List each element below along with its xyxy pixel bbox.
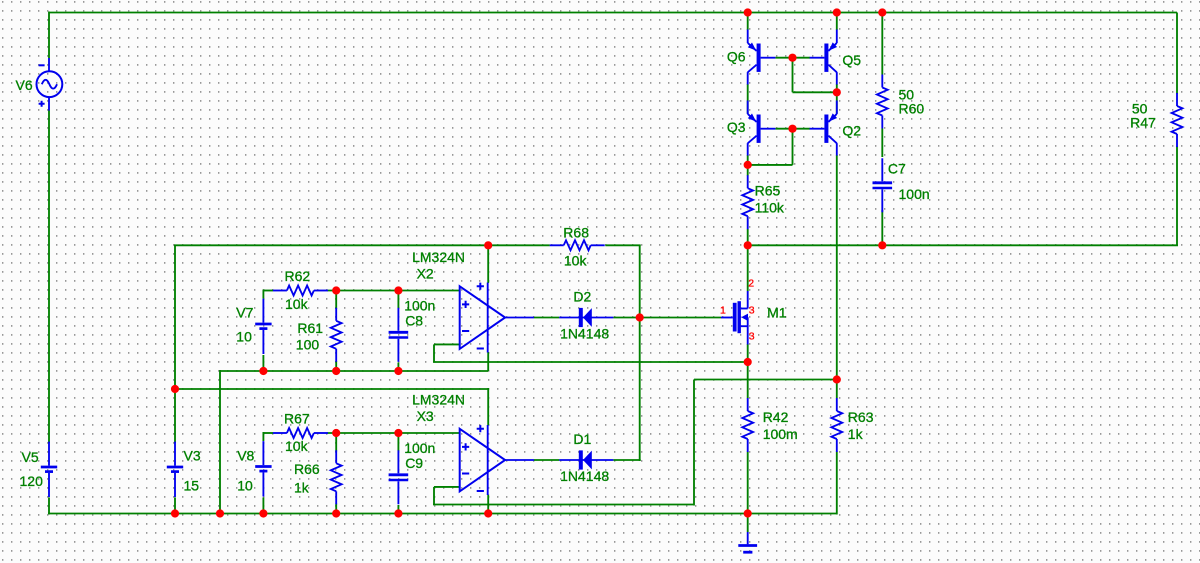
- svg-text:15: 15: [184, 477, 200, 493]
- wire X3 supply row: [175, 388, 488, 390]
- transistor Q6: [748, 30, 776, 85]
- junction M1 source / R42 / feedback: [744, 358, 752, 366]
- svg-text:1: 1: [720, 305, 726, 317]
- svg-text:Q5: Q5: [842, 52, 861, 68]
- wire Q5-Q2: [836, 84, 838, 114]
- diode D1: [559, 450, 613, 469]
- svg-text:10k: 10k: [564, 253, 588, 269]
- svg-text:R67: R67: [284, 410, 310, 426]
- wire X3 fb up: [693, 380, 695, 506]
- svg-text:2: 2: [748, 278, 754, 290]
- junction Q6-Q5 bases: [788, 54, 796, 62]
- resistor R67: [273, 428, 328, 438]
- wire Q6 base to Q5 base: [775, 57, 810, 59]
- wire R66 top stub: [335, 433, 337, 452]
- wire X2 fb down: [433, 344, 435, 362]
- resistor R42: [742, 398, 753, 452]
- resistor R68: [550, 240, 605, 250]
- wire X2 V- pin: [487, 352, 489, 371]
- wire base tie to Q3 collector: [748, 164, 793, 166]
- junction drain node: [744, 241, 752, 249]
- transistor Q2: [810, 101, 838, 156]
- wire X2 input row b: [327, 290, 459, 292]
- wire R60 top: [881, 13, 883, 75]
- svg-text:100n: 100n: [404, 297, 435, 313]
- svg-text:10k: 10k: [285, 296, 309, 312]
- svg-text:C7: C7: [888, 160, 906, 176]
- svg-text:100n: 100n: [899, 186, 930, 202]
- wire gate net upper: [639, 245, 641, 317]
- wire X3 out to D1: [534, 459, 559, 461]
- svg-text:LM324N: LM324N: [412, 391, 465, 407]
- svg-text:R47: R47: [1130, 115, 1156, 131]
- svg-text:X2: X2: [417, 266, 434, 282]
- junction C7 / drain rail: [878, 241, 886, 249]
- junction C9 top node: [394, 429, 402, 437]
- junction Q3 base-collector tie: [744, 161, 752, 169]
- wire drain rail right: [882, 244, 1178, 246]
- wire X2 inv stub: [434, 343, 459, 345]
- junction Q5 base-collector tie: [833, 88, 841, 96]
- svg-text:R65: R65: [755, 183, 781, 199]
- resistor R61: [331, 308, 342, 362]
- wire base tie to Q5 collector: [793, 91, 837, 93]
- junction X3 power / ground rail: [484, 509, 492, 517]
- svg-text:100: 100: [296, 337, 320, 353]
- wire R42 to ground rail: [747, 452, 749, 514]
- junction C9 / ground rail: [394, 509, 402, 517]
- wire R63 bottom: [836, 452, 838, 515]
- svg-text:1k: 1k: [848, 426, 864, 442]
- transistor Q3: [748, 101, 776, 156]
- op-amp X3: [460, 425, 534, 495]
- wire C8 top lead: [397, 291, 399, 309]
- svg-text:V5: V5: [22, 449, 39, 465]
- wire X3 input row a: [263, 432, 273, 434]
- junction ref drop / ground rail: [216, 509, 224, 517]
- wire R60 to C7: [881, 129, 883, 158]
- svg-text:R61: R61: [297, 320, 323, 336]
- wire gate net lower: [639, 318, 641, 462]
- wire R63 top lead: [836, 380, 838, 399]
- wire X3 V+ pin: [487, 388, 489, 426]
- wire upper gnd rail: [220, 370, 488, 372]
- junction V8 / ground rail: [259, 509, 267, 517]
- voltage source V6: [37, 58, 63, 111]
- wire source junction to R42: [747, 362, 749, 398]
- svg-text:110k: 110k: [755, 200, 785, 216]
- wire fb to R63 node: [694, 379, 837, 381]
- svg-text:V8: V8: [237, 447, 254, 463]
- junction ground symbol node: [744, 509, 752, 517]
- battery V5: [41, 442, 57, 497]
- svg-text:1k: 1k: [294, 479, 310, 495]
- wire gnd drop x220: [219, 370, 221, 514]
- wire R68 left: [488, 244, 550, 246]
- junction R66 / ground rail: [332, 509, 340, 517]
- junction V3 plus node: [171, 385, 179, 393]
- wire X3 fb down: [433, 487, 435, 505]
- wire R66 bottom stub: [335, 504, 337, 514]
- op-amp X2: [460, 283, 534, 353]
- wire drain rail mid: [748, 244, 883, 246]
- capacitor C8: [389, 308, 409, 362]
- wire V6 to V5: [48, 111, 50, 444]
- wire R47 bottom: [1176, 146, 1178, 245]
- wire C7 bottom: [881, 210, 883, 245]
- wire V5 to bottom rail: [48, 497, 50, 514]
- wire X2 input row a: [263, 290, 273, 292]
- svg-text:Q3: Q3: [727, 119, 746, 135]
- wire base net down: [792, 58, 794, 93]
- wire X3 V- pin: [487, 495, 489, 514]
- transistor Q5: [810, 30, 838, 85]
- junction gate net: [636, 313, 644, 321]
- resistor R65: [742, 175, 753, 229]
- wire drain down to M1: [747, 245, 749, 291]
- svg-text:R42: R42: [763, 409, 789, 425]
- junction top rail / Q6 emitter: [744, 8, 752, 16]
- wire R61 top stub: [335, 291, 337, 310]
- svg-text:R60: R60: [899, 100, 925, 116]
- svg-text:D2: D2: [573, 289, 591, 305]
- wire V6 top lead: [48, 12, 50, 59]
- svg-text:Q2: Q2: [842, 122, 861, 138]
- svg-text:D1: D1: [573, 431, 591, 447]
- wire Q3 base to Q2 base: [775, 128, 810, 130]
- svg-text:120: 120: [20, 473, 44, 489]
- junction V+ / R68 / X2 power: [484, 241, 492, 249]
- wire C9 top lead: [397, 433, 399, 451]
- svg-text:1N4148: 1N4148: [560, 468, 609, 484]
- svg-text:V7: V7: [236, 305, 253, 321]
- wire X2 fb row: [433, 361, 748, 363]
- resistor R66: [331, 450, 342, 504]
- wire Q2 collector down: [836, 155, 838, 380]
- wire top supply rail: [49, 12, 1177, 14]
- junction Q3-Q2 bases: [788, 125, 796, 133]
- svg-text:10: 10: [237, 477, 253, 493]
- svg-text:3: 3: [749, 331, 755, 343]
- svg-text:R62: R62: [285, 268, 311, 284]
- wire X2 V+ pin: [487, 245, 489, 283]
- wire V3 column up: [174, 245, 176, 389]
- resistor R47: [1172, 93, 1183, 147]
- junction R62-R61 node: [332, 286, 340, 294]
- wire R47 top: [1176, 13, 1178, 95]
- transistor M1: [721, 291, 748, 345]
- junction C8 / ref rail: [394, 367, 402, 375]
- wire Q6 emitter supply: [747, 13, 749, 31]
- wire R68 right: [605, 244, 640, 246]
- battery V8: [255, 441, 271, 496]
- svg-text:M1: M1: [767, 304, 787, 320]
- wire C8 bottom lead: [397, 363, 399, 372]
- junction R61 / ref rail: [332, 367, 340, 375]
- svg-text:V3: V3: [184, 447, 201, 463]
- wire V7 top: [262, 290, 264, 299]
- wire X3 fb row: [433, 504, 694, 506]
- wire V8 top: [262, 432, 264, 441]
- svg-text:100n: 100n: [404, 440, 435, 456]
- wire D2 to M1 gate: [613, 317, 721, 319]
- wire C9 bottom lead: [397, 505, 399, 514]
- svg-text:Q6: Q6: [727, 48, 746, 64]
- resistor R62: [273, 286, 328, 296]
- wire Q3 collector to R65: [747, 155, 749, 176]
- wire Q5 emitter supply: [836, 13, 838, 31]
- wire D1 to gate net: [613, 459, 640, 461]
- svg-text:100m: 100m: [763, 426, 798, 442]
- svg-text:10: 10: [236, 329, 252, 345]
- svg-text:X3: X3: [417, 408, 434, 424]
- junction V7 minus / ref rail: [259, 367, 267, 375]
- wire X3 input row b: [327, 432, 459, 434]
- svg-text:LM324N: LM324N: [412, 249, 465, 265]
- junction top rail / Q5 emitter: [833, 8, 841, 16]
- wire V8 bottom: [262, 497, 264, 513]
- wire V7 bottom: [262, 355, 264, 371]
- wire Q6-Q3: [747, 84, 749, 114]
- resistor R63: [831, 398, 842, 452]
- battery V7: [255, 299, 271, 354]
- svg-text:R63: R63: [848, 409, 874, 425]
- svg-text:3: 3: [749, 305, 755, 317]
- battery V3: [167, 442, 183, 497]
- svg-text:R68: R68: [563, 225, 589, 241]
- wire X3 inv stub: [434, 486, 459, 488]
- junction C8 top node: [394, 286, 402, 294]
- capacitor C7: [873, 158, 893, 212]
- wire R65 to drain rail: [747, 229, 749, 245]
- wire M1 source to junction: [747, 344, 749, 362]
- ground: [738, 514, 757, 553]
- wire V3 top lead: [174, 389, 176, 443]
- wire V+ rail to X2: [174, 244, 488, 246]
- svg-text:1N4148: 1N4148: [560, 326, 609, 342]
- junction Q2 collector / R63 / X3 fb: [833, 375, 841, 383]
- svg-text:10k: 10k: [285, 438, 309, 454]
- wire X2 out to D2: [534, 317, 559, 319]
- svg-text:C9: C9: [405, 455, 423, 471]
- wire R61 bottom stub: [335, 361, 337, 371]
- diode D2: [559, 308, 613, 327]
- wire base net 2 down: [792, 129, 794, 165]
- svg-text:V6: V6: [16, 77, 33, 93]
- junction R67-R66 node: [332, 429, 340, 437]
- capacitor C9: [389, 450, 409, 504]
- svg-text:R66: R66: [294, 461, 320, 477]
- junction V3 / ground rail: [171, 509, 179, 517]
- wire bottom ground rail: [48, 513, 837, 515]
- resistor R60: [877, 75, 888, 129]
- junction top rail / R60: [878, 8, 886, 16]
- wire V3 bottom: [174, 497, 176, 513]
- svg-text:C8: C8: [405, 312, 423, 328]
